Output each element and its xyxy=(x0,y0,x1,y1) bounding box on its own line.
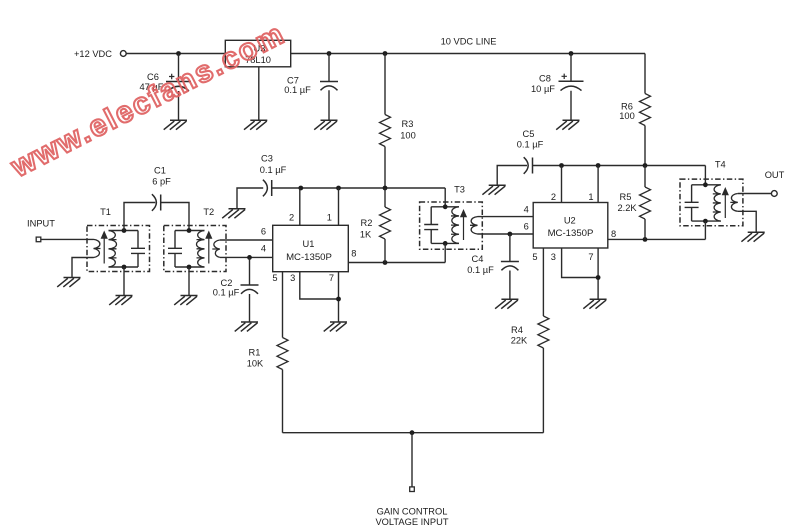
wire T4 secondary to ground xyxy=(738,211,756,232)
node junction C7 xyxy=(327,51,332,56)
svg-text:1K: 1K xyxy=(360,229,372,239)
ground T2 tank xyxy=(174,296,197,305)
node junction U1 pin1 xyxy=(336,186,341,191)
op-amp U2 MC-1350P xyxy=(533,203,608,249)
ground C4 xyxy=(495,299,518,308)
svg-text:8: 8 xyxy=(351,249,356,259)
svg-text:1: 1 xyxy=(588,192,593,202)
capacitor C6 47uF xyxy=(140,54,191,121)
wire U1 pin8 rail xyxy=(348,262,445,264)
node junction C4 xyxy=(508,232,513,237)
node T3 tank bottom xyxy=(443,241,448,246)
node junction U2 pin1 xyxy=(596,163,601,168)
wire U1 pin7 xyxy=(338,272,340,322)
svg-text:T2: T2 xyxy=(203,207,214,217)
svg-text:MC-1350P: MC-1350P xyxy=(286,252,332,263)
svg-text:0.1 µF: 0.1 µF xyxy=(260,165,287,175)
op-amp U1 MC-1350P xyxy=(273,225,349,271)
wire C3 rail to T3 xyxy=(301,187,445,189)
node junction R2 bottom xyxy=(383,260,388,265)
node junction U1 pin3 pin7 xyxy=(336,297,341,302)
node T1 tank bottom xyxy=(122,265,127,270)
resistor R1 10K xyxy=(247,272,288,433)
svg-text:6: 6 xyxy=(524,222,529,232)
svg-text:10 VDC LINE: 10 VDC LINE xyxy=(441,37,497,47)
svg-text:3: 3 xyxy=(290,273,295,283)
node junction U2 pin3 pin7 xyxy=(596,275,601,280)
svg-text:1: 1 xyxy=(327,213,332,223)
node +12 VDC input terminal xyxy=(74,49,126,59)
svg-text:www.elecfans.com: www.elecfans.com xyxy=(5,17,290,184)
ground T1 tank xyxy=(109,296,132,305)
wire T2 to U1 pin6 xyxy=(220,239,273,241)
node T4 tank top xyxy=(703,182,708,187)
svg-text:C4: C4 xyxy=(472,254,484,264)
svg-text:R4: R4 xyxy=(511,325,523,335)
capacitor C7 0.1uF xyxy=(284,54,338,121)
svg-text:C7: C7 xyxy=(287,76,299,86)
wire U2 pin2 xyxy=(561,166,563,203)
svg-text:5: 5 xyxy=(532,252,537,262)
wire U2 pin8 rail xyxy=(608,238,706,240)
svg-text:INPUT: INPUT xyxy=(27,219,55,229)
svg-text:MC-1350P: MC-1350P xyxy=(548,228,594,239)
ground U3 xyxy=(244,120,267,129)
ground U2 pins 3 7 xyxy=(583,299,606,308)
ground T4 secondary xyxy=(741,232,764,241)
transformer T3 xyxy=(420,185,483,250)
resistor R6 100 xyxy=(619,54,650,166)
node T2 tank top xyxy=(187,228,192,233)
svg-text:0.1 µF: 0.1 µF xyxy=(467,265,494,275)
wire T1 tank bottom to ground xyxy=(123,267,125,296)
svg-text:10 µF: 10 µF xyxy=(531,84,555,94)
svg-text:OUT: OUT xyxy=(765,170,785,180)
svg-text:T4: T4 xyxy=(715,160,726,170)
svg-text:U2: U2 xyxy=(564,216,576,226)
svg-text:3: 3 xyxy=(551,252,556,262)
ground C3 xyxy=(222,209,245,218)
svg-text:6: 6 xyxy=(261,227,266,237)
svg-text:C1: C1 xyxy=(154,166,166,176)
node junction gain control xyxy=(410,430,415,435)
svg-text:GAIN CONTROL: GAIN CONTROL xyxy=(377,507,448,517)
ground T1 primary xyxy=(57,278,80,287)
transformer T1 xyxy=(72,207,150,278)
svg-text:R6: R6 xyxy=(621,101,633,111)
node GAIN CONTROL terminal xyxy=(375,487,448,527)
wire U1 pin1 xyxy=(338,188,340,225)
wire U1 pin3 xyxy=(300,272,339,299)
svg-text:C3: C3 xyxy=(261,154,273,164)
wire U3 ground pin xyxy=(258,67,260,121)
svg-text:+12 VDC: +12 VDC xyxy=(74,49,112,59)
svg-text:8: 8 xyxy=(611,229,616,239)
wire T4 bottom to pin8 rail xyxy=(704,221,706,239)
svg-text:7: 7 xyxy=(588,252,593,262)
node junction U1 pin2 xyxy=(298,186,303,191)
node junction R3 top xyxy=(383,51,388,56)
svg-text:6 pF: 6 pF xyxy=(152,177,171,187)
regulator U3 78L10 xyxy=(225,40,290,67)
resistor R4 22K xyxy=(511,248,549,433)
node junction R3 R2 xyxy=(383,186,388,191)
resistor R3 100 xyxy=(380,54,416,189)
svg-text:2.2K: 2.2K xyxy=(617,203,637,213)
wire 10VDC rail xyxy=(291,53,645,55)
node INPUT terminal xyxy=(27,219,55,242)
wire T2 to U1 pin4 xyxy=(220,256,273,258)
svg-text:R1: R1 xyxy=(249,347,261,357)
node T1 tank top xyxy=(122,228,127,233)
svg-text:100: 100 xyxy=(619,111,635,121)
wire T4 secondary to OUT xyxy=(738,193,772,195)
svg-text:7: 7 xyxy=(329,273,334,283)
wire T3 to U2 pin4 xyxy=(478,216,534,218)
node T4 tank bottom xyxy=(703,219,708,224)
wire +12VDC rail xyxy=(126,53,225,55)
svg-text:4: 4 xyxy=(261,244,266,254)
svg-text:0.1 µF: 0.1 µF xyxy=(284,85,311,95)
wire T2 tank bottom to ground xyxy=(188,267,190,296)
svg-text:10K: 10K xyxy=(247,358,264,368)
ground U1 pins 3 7 xyxy=(324,322,347,331)
svg-text:VOLTAGE INPUT: VOLTAGE INPUT xyxy=(375,517,448,527)
wire T3 bottom to pin8 rail xyxy=(444,243,446,262)
svg-text:4: 4 xyxy=(524,204,529,214)
capacitor C1 6pF xyxy=(124,166,189,231)
ground C5 xyxy=(482,185,505,194)
svg-text:R5: R5 xyxy=(620,192,632,202)
node junction C8 xyxy=(569,51,574,56)
wire gain control rail xyxy=(283,432,544,434)
node OUT terminal xyxy=(765,170,785,196)
ground C8 xyxy=(556,120,579,129)
svg-text:5: 5 xyxy=(272,273,277,283)
resistor R5 2.2K xyxy=(617,166,650,240)
svg-text:C2: C2 xyxy=(221,278,233,288)
node junction R6 R5 xyxy=(643,163,648,168)
ground C6 xyxy=(164,120,187,129)
node junction R5 bottom xyxy=(643,237,648,242)
wire T3 to U2 pin6 xyxy=(478,233,534,235)
svg-text:R3: R3 xyxy=(402,119,414,129)
node junction U2 pin2 xyxy=(559,163,564,168)
svg-text:100: 100 xyxy=(400,131,416,141)
capacitor C2 0.1uF xyxy=(213,257,259,322)
resistor R2 1K xyxy=(360,188,391,263)
transformer T4 xyxy=(680,160,743,226)
node T2 tank bottom xyxy=(187,265,192,270)
capacitor C3 0.1uF xyxy=(237,154,301,209)
wire U1 pin2 xyxy=(299,188,301,225)
node junction C2 xyxy=(247,255,252,260)
svg-text:2: 2 xyxy=(551,192,556,202)
svg-text:T3: T3 xyxy=(454,185,465,195)
node T3 tank top xyxy=(443,204,448,209)
svg-text:U1: U1 xyxy=(303,239,315,249)
wire U2 pin1 xyxy=(597,166,599,203)
svg-text:T1: T1 xyxy=(100,207,111,217)
capacitor C4 0.1uF xyxy=(467,234,519,299)
wire gain control drop xyxy=(411,433,413,487)
svg-text:0.1 µF: 0.1 µF xyxy=(213,288,240,298)
ground C2 xyxy=(235,322,258,331)
wire U2 pin3 xyxy=(562,248,599,278)
svg-text:0.1 µF: 0.1 µF xyxy=(517,140,544,150)
svg-text:22K: 22K xyxy=(511,336,528,346)
capacitor C8 10uF xyxy=(531,54,583,121)
wire input to T1 xyxy=(41,238,94,240)
transformer T2 xyxy=(164,207,226,271)
svg-text:2: 2 xyxy=(289,213,294,223)
node junction C6 xyxy=(176,51,181,56)
wire U2 pin7 xyxy=(597,248,599,299)
ground C7 xyxy=(314,120,337,129)
svg-text:C5: C5 xyxy=(523,129,535,139)
svg-text:R2: R2 xyxy=(361,218,373,228)
svg-text:C8: C8 xyxy=(539,73,551,83)
capacitor C5 0.1uF xyxy=(497,129,705,185)
